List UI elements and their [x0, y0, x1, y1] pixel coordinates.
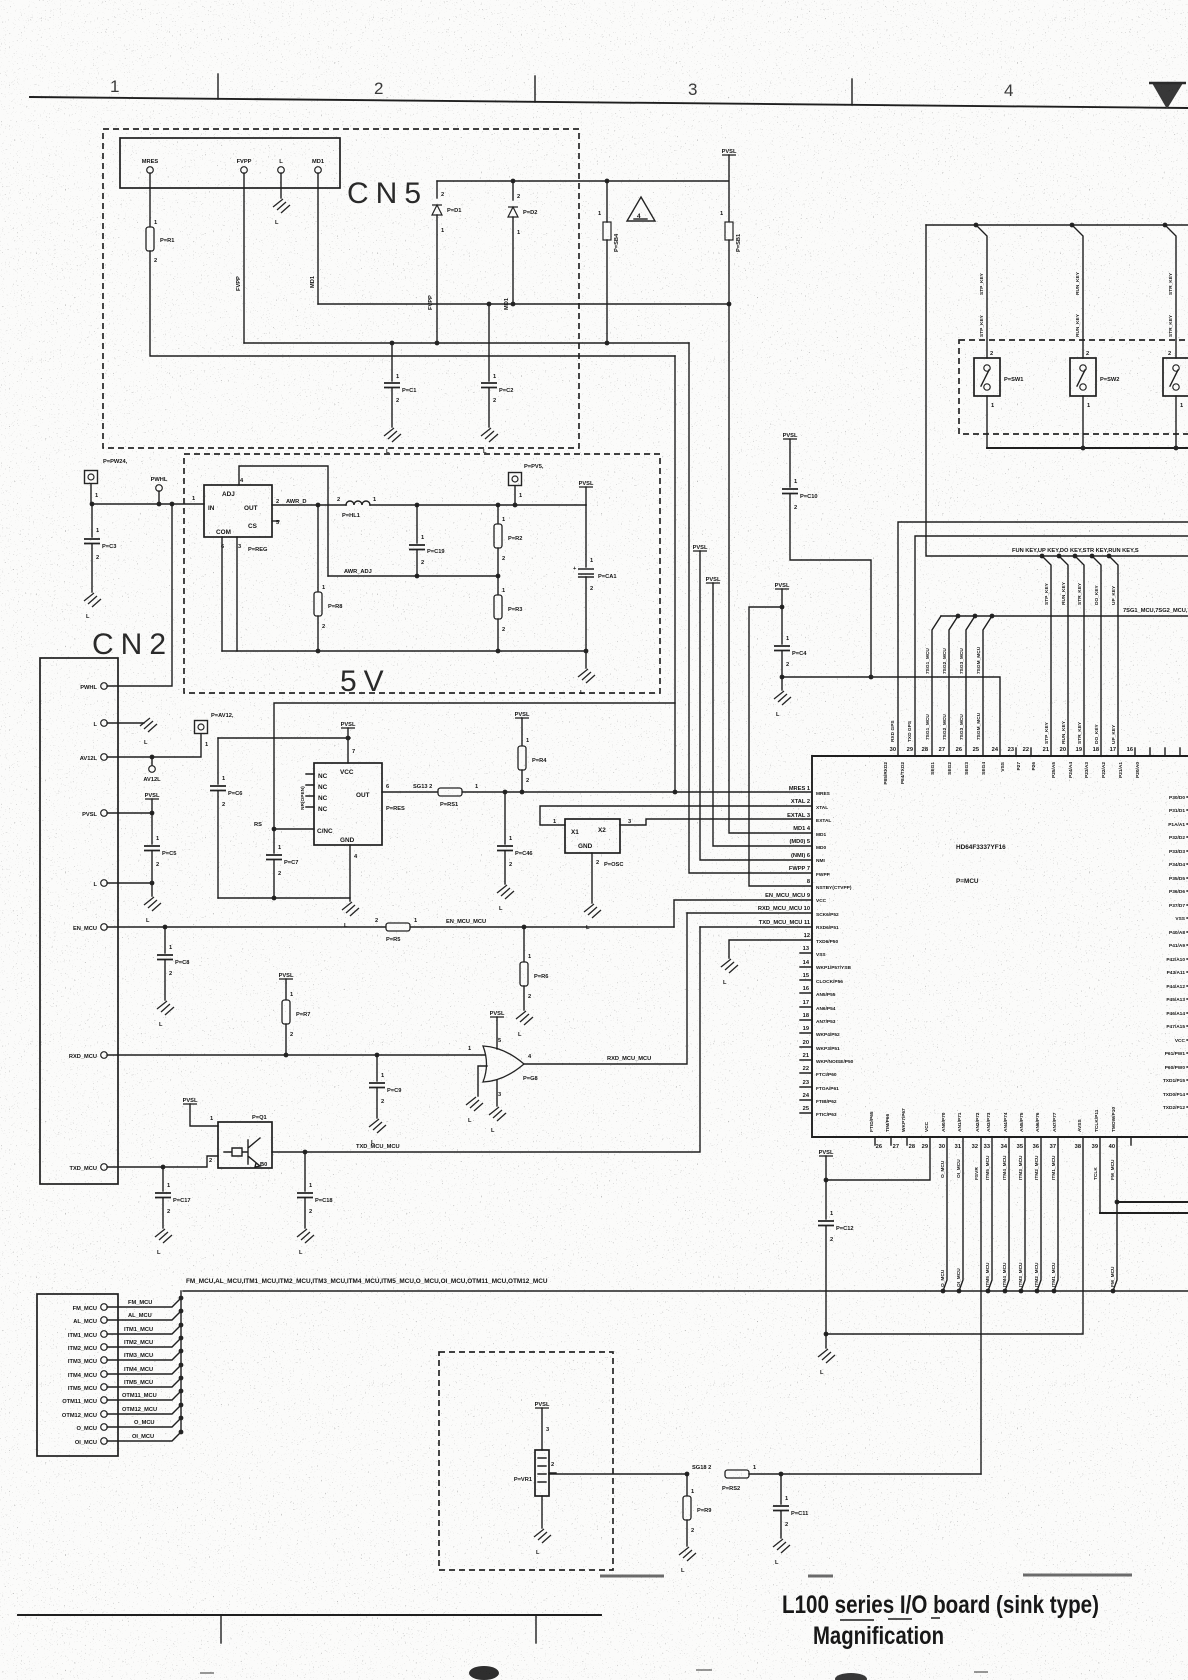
junction C19 top: [415, 503, 420, 508]
wire STR_KEY to MCU: [1075, 556, 1084, 756]
ground under C18: [297, 1229, 314, 1243]
pin OTM12_MCU: [101, 1411, 108, 1418]
PVSL flag at reset IC VCC: [341, 722, 356, 728]
wire ITM bus horizontal: [183, 1290, 1188, 1292]
OR gate G8: [483, 1046, 524, 1082]
wire TXD_GPS rail: [915, 536, 1188, 756]
junction VCC line: [346, 736, 351, 741]
wire Q1 pin1: [190, 1104, 218, 1126]
wire NMI riser to pin6: [700, 551, 812, 860]
wire PVSL flag to VCC pin 7: [347, 728, 349, 763]
wire AWR_ADJ line: [328, 575, 498, 577]
pin L of CN5: [278, 167, 285, 174]
junction C46 top: [503, 790, 508, 795]
junction C4 stem: [780, 605, 785, 610]
wire ITM3_MCU pin to bus: [1021, 1137, 1025, 1291]
pin RXD_MCU of CN2: [101, 1052, 108, 1059]
pin AV12L of CN2: [101, 754, 108, 761]
junction 7SG2: [956, 614, 961, 619]
wire RUN_KEY to SW2: [1072, 225, 1083, 358]
wire C46 to ground: [504, 851, 506, 884]
junction RUN branch: [1070, 223, 1075, 228]
wire OUT rail 5V: [272, 504, 586, 506]
PVSL flag above Q1: [183, 1098, 198, 1104]
ground under C46: [497, 885, 514, 899]
scan artifact blob: [469, 1666, 499, 1680]
junction UP key bus: [1107, 554, 1112, 559]
capacitor C46: [504, 792, 506, 844]
pin O_MCU: [101, 1424, 108, 1431]
pin EN_MCU of CN2: [101, 924, 108, 931]
capacitor C7: [273, 829, 275, 853]
ground under C8: [157, 1001, 174, 1015]
capacitor C17: [162, 1167, 164, 1191]
wire OUT pin 6 MRES line: [382, 791, 812, 793]
wire switch bottom rail: [987, 447, 1188, 449]
ground under C3: [84, 593, 101, 607]
transistor Q1 digital box: [218, 1122, 272, 1168]
resistor R5: [386, 923, 410, 931]
pad P=PW24: [85, 471, 98, 484]
wire R8 to bottom rail: [317, 616, 319, 651]
junction C11 top: [779, 1472, 784, 1477]
SECTION: risers to MCU left pins: [674, 304, 1000, 986]
ground at gate input2: [466, 1097, 483, 1111]
junction C12 top: [824, 1178, 829, 1183]
pin L of CN2: [101, 720, 108, 727]
wire PVSL rail to diodes: [437, 155, 729, 222]
switch dashed box: [959, 340, 1188, 434]
switch SW1: [974, 358, 1000, 396]
junction STR branch: [1163, 223, 1168, 228]
pin FVPP of CN5: [241, 167, 248, 174]
pin ITM1_MCU: [101, 1331, 108, 1338]
wire D1 top lead: [436, 181, 438, 198]
wire CS stub: [272, 520, 279, 522]
ground under 5V rail: [578, 669, 595, 683]
wire MD1 riser to pin4: [729, 304, 812, 833]
wire RXD_GPS rail: [898, 522, 1188, 756]
node RS: [272, 827, 277, 832]
junction C10 joint: [869, 675, 874, 680]
junction 7SGM: [990, 614, 995, 619]
wire C11 to ground: [780, 1511, 782, 1538]
pin ITM5_MCU: [101, 1384, 108, 1391]
junction 7SG3: [973, 614, 978, 619]
wire VSS line to MCU pin24: [782, 677, 1000, 756]
junction C18 top: [303, 1150, 308, 1155]
wire PVSL to NSTBY riser: [749, 589, 812, 886]
capacitor C8: [164, 927, 166, 953]
wire PVSL flag to rail: [585, 487, 587, 505]
tick 1: [217, 74, 219, 99]
wire pad to regulator IN: [91, 484, 204, 504]
connector CN2 body: [40, 658, 118, 1184]
MCU top unconnected stubs: [1016, 748, 1180, 756]
inductor HL1: [346, 501, 370, 505]
SECTION: CN2 connector: [40, 504, 674, 1256]
5V dashed boundary box: [184, 454, 660, 693]
junction R4 bottom: [520, 790, 525, 795]
wire ITM1_MCU pin to bus: [1054, 1137, 1058, 1291]
MCU top pin numbers: [890, 747, 1133, 753]
SECTION: CN5 connector area: [103, 129, 742, 455]
ground under C4: [781, 677, 783, 690]
diode D2: [508, 207, 518, 217]
wire FVPP riser to pin7: [689, 343, 812, 873]
wire C12 to VSS line 1334: [825, 1226, 827, 1334]
jumper SB4: [603, 222, 611, 240]
wire ITM4_MCU pin to bus: [1005, 1137, 1009, 1291]
wire R3 to bottom rail: [497, 619, 499, 651]
pad P=PV5: [509, 473, 522, 486]
wire gate pin3 to ground: [496, 1080, 498, 1106]
PVSL flag at C12: [819, 1150, 834, 1156]
wire L pin to ground: [280, 173, 282, 198]
wire STP_KEY to SW1: [976, 225, 987, 358]
junction C1 top: [390, 341, 395, 346]
wire VR bottom to ground: [541, 1496, 543, 1528]
wire 7SG2_MCU: [949, 616, 958, 756]
wire MD1 net horizontal: [318, 303, 729, 305]
ruler line: [30, 97, 1188, 108]
SECTION: footer: [18, 1575, 1132, 1680]
SECTION: key switches and top buses: [890, 223, 1188, 756]
ground under C1: [384, 428, 401, 442]
pin MRES of CN5: [147, 167, 154, 174]
ground under oscillator: [584, 904, 601, 918]
wire 5V bottom rail: [222, 650, 586, 652]
wire EN riser step: [674, 900, 812, 927]
wire 7SGM_MCU: [983, 616, 992, 756]
pin ITM3_MCU: [101, 1357, 108, 1364]
wire MRES net (R1 down, right to riser): [150, 251, 675, 356]
CN5 dashed boundary box: [103, 129, 579, 448]
wire C7 to bottom rail: [273, 860, 275, 898]
resistor R3: [497, 576, 499, 595]
wire C4 to VSS line: [781, 651, 783, 677]
junction RUN key bus: [1057, 554, 1062, 559]
wire FVPP pin down: [243, 173, 245, 343]
capacitor C2: [488, 304, 490, 381]
capacitor C18: [304, 1152, 306, 1191]
PVSL flag MD0: [706, 577, 721, 583]
MCU left pin internal names: [816, 791, 854, 1118]
wire FSVR pin long vertical: [980, 1137, 982, 1474]
wire FM branch to right edge: [1117, 1201, 1188, 1203]
ground under C2: [481, 428, 498, 442]
wire PWHL stub: [158, 491, 160, 504]
NC pin stubs: [306, 774, 314, 807]
Q1 internals: [224, 1138, 260, 1167]
wire TCLK pin to right edge: [1099, 1137, 1101, 1213]
wire X1 GND pin: [591, 853, 593, 903]
junction bottom rail R8: [316, 649, 321, 654]
wire MRES riser down: [674, 356, 676, 792]
junction SW2 bottom: [1081, 446, 1086, 451]
capacitor C3: [91, 504, 93, 537]
wire Q1 output TXD_MCU_MCU: [272, 927, 700, 1152]
revision triangle marker: [1152, 83, 1183, 109]
wire VR wiper to SG node: [549, 1473, 687, 1475]
MCU right pin stubs at page edge: [1187, 797, 1188, 1107]
pin PWHL of CN2: [101, 683, 108, 690]
wire MD1 pin down: [317, 173, 319, 304]
wire ITM2_MCU pin to bus: [1037, 1137, 1041, 1291]
pin PVSL of CN2: [101, 810, 108, 817]
wire C5 to L pin line: [151, 851, 153, 883]
junction C8 top: [163, 925, 168, 930]
wire gate output RXD_MCU_MCU: [524, 913, 687, 1064]
wire L pin to ground: [107, 722, 144, 724]
wire SB1 bottom lead to MD1 line: [728, 240, 730, 304]
pin L2 of CN2: [101, 880, 108, 887]
junction SB4 top: [605, 179, 610, 184]
wire CA1 to bottom rail and ground: [585, 577, 587, 668]
node PWHL open circle: [156, 485, 163, 492]
wire RXD_MCU line: [107, 1054, 486, 1056]
wire C10 to VSS line: [790, 494, 871, 677]
wire C19 to ADJ line: [416, 550, 418, 576]
wire X1 pin1 to XTAL: [540, 806, 812, 825]
PVSL flag at VR: [535, 1402, 550, 1408]
junction DO key bus: [1090, 554, 1095, 559]
SECTION: 5V regulator: [84, 454, 660, 698]
junction bottom rail R3: [496, 649, 501, 654]
connector J bottom-left body: [37, 1294, 118, 1456]
wire gate input2 to ground: [478, 1066, 487, 1096]
resistor R7: [285, 979, 287, 1000]
junction R8 top: [316, 503, 321, 508]
switch SW2: [1070, 358, 1096, 396]
resistor R2: [497, 505, 499, 524]
wire C/NC to RS node: [274, 828, 314, 830]
junction C17 top: [161, 1165, 166, 1170]
ground at gate pin3: [489, 1107, 506, 1121]
wire TXD_MCU to Q1: [107, 1156, 218, 1167]
junction C4 bottom: [780, 675, 785, 680]
wire STP_KEY to MCU: [1042, 556, 1051, 756]
junction D2 bottom: [511, 302, 516, 307]
bottom tick A: [220, 1615, 222, 1643]
tick 2: [534, 76, 536, 102]
wire C18 to ground: [304, 1198, 306, 1228]
pad P=AV12: [195, 721, 208, 734]
PVSL flag NMI: [693, 545, 708, 551]
wire STR_KEY to SW3: [1165, 225, 1176, 358]
wire SW1 to bottom rail: [986, 396, 988, 448]
ground under R6: [516, 1011, 533, 1025]
jumper SB1: [725, 222, 733, 240]
scan artifact bars: [600, 1575, 1132, 1576]
wire UP_KEY to MCU: [1109, 556, 1118, 756]
wire 7SG bus: [941, 615, 1188, 617]
connector CN5 body: [120, 138, 340, 188]
bottom ruler line: [18, 1614, 601, 1616]
junction L2/C5: [150, 881, 155, 886]
ground under C11: [773, 1539, 790, 1553]
ground under R9: [679, 1547, 696, 1561]
wire FVPP net horizontal: [244, 342, 689, 344]
ground under reset IC: [342, 902, 359, 916]
wire VCC line C6 to reset IC: [218, 737, 350, 739]
capacitor C12: [825, 1180, 827, 1219]
wire DO_KEY to MCU: [1092, 556, 1101, 756]
wire gate pin5: [496, 1017, 498, 1049]
wire RXD pin10 line: [687, 912, 812, 914]
resistor R9: [686, 1474, 688, 1496]
wire MRES pin to R1: [149, 173, 151, 227]
wire PV5 pad to rail: [514, 486, 516, 505]
junction C9 top: [375, 1053, 380, 1058]
wire D2 to MD1 line: [512, 217, 514, 304]
wire FM_MCU pin down: [1113, 1137, 1117, 1291]
MCU top internal names rotated: [883, 761, 1141, 784]
PVSL flag top right of CN5: [722, 149, 737, 155]
ground at CN5 L pin: [273, 199, 290, 213]
wire RS riser to MRES vertical: [274, 703, 675, 829]
wire C8 to ground: [164, 960, 166, 1000]
junction MRES riser: [673, 790, 678, 795]
junction PWHL: [157, 502, 162, 507]
capacitor C4: [781, 607, 783, 644]
wire C3 to ground: [91, 544, 93, 592]
wire R7 to RXD line: [285, 1024, 287, 1055]
SECTION: top ruler: [30, 74, 1188, 109]
MCU bottom pin numbers: [876, 1144, 1115, 1150]
junction R2 bottom: [496, 574, 501, 579]
PVSL flag above gate: [490, 1011, 505, 1017]
PVSL flag C10: [783, 433, 798, 439]
VR dashed box: [439, 1352, 613, 1570]
junction CN2 PWHL riser: [170, 502, 175, 507]
PVSL flag above R4: [515, 712, 530, 718]
wire R9 to ground: [686, 1520, 688, 1546]
trimmer VR1: [535, 1450, 549, 1496]
wire D2 top lead: [512, 181, 514, 200]
capacitor C1: [391, 343, 393, 381]
wire C17 to ground: [162, 1198, 164, 1228]
wire VSS pin12: [729, 940, 812, 958]
wire X2 pin3 to EXTAL: [620, 819, 812, 825]
wire CN2 PWHL to 5V input: [107, 504, 172, 686]
pin AL_MCU: [101, 1317, 108, 1324]
ground under C12: [825, 1334, 827, 1348]
ground under C9: [369, 1119, 386, 1133]
junction C2 top: [487, 302, 492, 307]
oscillator X1 box: [565, 819, 620, 853]
wire reset bottom rail: [218, 897, 350, 899]
pin OTM11_MCU: [101, 1397, 108, 1404]
junction SB4 bottom on FVPP line: [605, 341, 610, 346]
wire C2 to ground: [488, 388, 490, 427]
ground under C5: [144, 897, 161, 911]
wire C9 to ground: [376, 1088, 378, 1118]
wire AV12L net: [107, 734, 201, 757]
SECTION: bottom circuits: [37, 1137, 1188, 1574]
diode D1: [432, 205, 442, 215]
MCU U1 box: [812, 756, 1188, 1137]
wire SB4 leads: [606, 181, 608, 343]
wire SW2 to bottom rail: [1082, 396, 1084, 448]
wire bus riser: [180, 1291, 182, 1432]
junction STP branch: [974, 223, 979, 228]
wire PVSL flag stem: [151, 799, 153, 813]
wire ITM5_MCU pin to bus: [988, 1137, 992, 1291]
PVSL flag at 5V output: [579, 481, 594, 487]
MCU bottom unconnected stubs: [875, 1137, 1131, 1145]
wire R6 to ground: [523, 986, 525, 1010]
junction SB1 on MD1 line: [727, 302, 732, 307]
wire TXD pin11 line: [700, 926, 812, 928]
junction R6 top: [522, 925, 527, 930]
SECTION: MCU: [758, 747, 1188, 1150]
wire RUN_KEY to MCU: [1059, 556, 1068, 756]
junction pad lead: [90, 502, 95, 507]
wire COM pins to bottom rail: [222, 537, 237, 651]
junction SG node: [685, 1472, 690, 1477]
junction STP key bus: [1040, 554, 1045, 559]
pin ITM2_MCU: [101, 1344, 108, 1351]
capacitor C19: [416, 505, 418, 543]
junction FM branch: [1115, 1200, 1120, 1205]
junction R2 top: [496, 503, 501, 508]
pin OI_MCU: [101, 1438, 108, 1445]
ground at VSS pin12: [721, 959, 738, 973]
MCU bottom internal names rotated: [869, 1107, 1117, 1132]
node AV12L open circle: [151, 757, 153, 766]
MCU left unconnected pin stubs 13-25: [800, 953, 812, 1113]
pin FM_MCU: [101, 1304, 108, 1311]
pin MD1 of CN5: [315, 167, 322, 174]
capacitor C11: [780, 1474, 782, 1504]
junction OI_MCU bus: [957, 1289, 962, 1294]
capacitor CA1 electrolytic: [585, 505, 587, 567]
PVSL flag at CN2: [145, 793, 160, 799]
resistor R4: [521, 718, 523, 746]
junction SW3 bottom: [1174, 446, 1179, 451]
wire 7SG1_MCU: [932, 616, 941, 756]
junction AV12L stub: [150, 755, 155, 760]
junction PVSL: [150, 811, 155, 816]
wire L2 to ground: [107, 883, 152, 896]
resistor RS2: [725, 1470, 749, 1478]
ground under C17: [155, 1229, 172, 1243]
capacitor C9: [376, 1055, 378, 1081]
MCU right pin internal names: [1163, 795, 1186, 1111]
bottom tick B: [535, 1615, 537, 1643]
wire PVSL pin to C5: [107, 812, 152, 814]
junction VSS line left end: [824, 1332, 829, 1337]
ground at CN2 L pin: [140, 718, 157, 732]
junction R7 bottom: [284, 1053, 289, 1058]
wire switch top bus rail: [926, 224, 1188, 226]
wire SW3 to bottom rail: [1175, 396, 1177, 448]
wire O_MCU pin to bus: [943, 1137, 947, 1291]
switch SW3: [1163, 358, 1188, 396]
wire GND pin 4: [349, 845, 351, 901]
caution triangle 4: [627, 197, 655, 221]
wire D1 to FVPP line: [436, 215, 438, 343]
PVSL flag above R7: [279, 973, 294, 979]
wire bus riser to FUN KEY bus: [926, 225, 1188, 556]
wire RS2 to riser: [749, 1473, 981, 1475]
wire OI_MCU pin to bus: [959, 1137, 963, 1291]
wire PVSL to VR: [541, 1408, 543, 1450]
pin TXD_MCU of CN2: [101, 1164, 108, 1171]
capacitor C5: [151, 813, 153, 844]
wire PVSL to pin29 line: [826, 1137, 930, 1180]
